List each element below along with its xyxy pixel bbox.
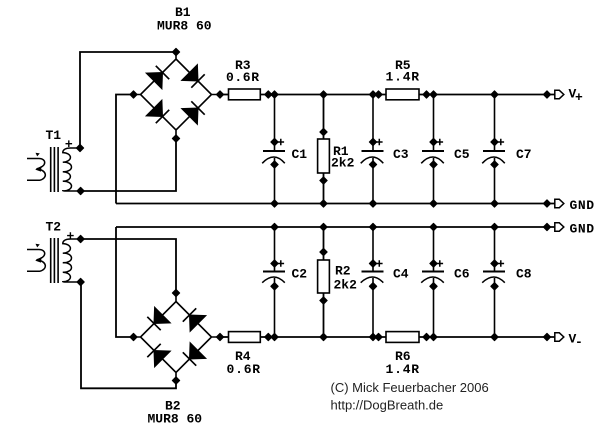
junction R4 out <box>265 333 272 340</box>
svg-text:GND: GND <box>570 198 595 213</box>
resistor R6 <box>386 332 420 377</box>
capacitor C3 <box>361 95 409 204</box>
capacitor C2 <box>262 227 307 337</box>
node B2 bottom <box>172 377 179 384</box>
junction C2 bottom <box>271 333 278 340</box>
node B2 top <box>172 289 179 296</box>
wire B1 bottom node to T1 secondary bottom <box>81 139 176 192</box>
T2 secondary winding <box>63 239 81 282</box>
capacitor C5 <box>421 95 470 204</box>
wire B1 left node to GND rail <box>116 95 134 204</box>
junction C7 bottom <box>491 200 498 207</box>
junction C6 top <box>430 223 437 230</box>
junction C3 top <box>369 91 376 98</box>
transformer T1 <box>27 128 84 195</box>
diode B2 bottom-left <box>147 344 170 367</box>
node B1 right <box>216 91 223 98</box>
node T1 secondary top <box>76 144 83 151</box>
node B1 bottom <box>172 135 179 142</box>
junction C5 bottom <box>430 200 437 207</box>
junction R5 out <box>423 91 430 98</box>
wire R5 to V+ terminal <box>419 94 555 96</box>
diode B2 right-top <box>183 308 206 331</box>
T1 primary arrow <box>35 166 41 172</box>
node B1 top <box>172 48 179 55</box>
bridge rectifier B2 diamond <box>134 293 221 381</box>
junction C8 top <box>491 223 498 230</box>
wire R6 to V- terminal <box>419 336 555 338</box>
wire B2 left node to GND rail (lower) <box>116 227 134 337</box>
junction C4 top <box>369 223 376 230</box>
junction C4 bottom <box>369 333 376 340</box>
svg-text:http://DogBreath.de: http://DogBreath.de <box>331 398 444 413</box>
wire B1 right to R3 <box>220 94 229 96</box>
junction R5 in <box>375 91 382 98</box>
diode B2 top-left <box>147 307 170 330</box>
terminal GND (lower) <box>555 223 564 231</box>
capacitor C4 <box>361 227 409 337</box>
junction C6 bottom <box>430 333 437 340</box>
wire B2 right to R4 <box>220 336 229 338</box>
junction C3 bottom <box>369 200 376 207</box>
junction R6 out <box>423 333 430 340</box>
junction R1 bottom <box>320 200 327 207</box>
svg-text:C6: C6 <box>454 267 470 282</box>
junction C8 bottom <box>491 333 498 340</box>
junction C2 top <box>271 223 278 230</box>
diode B1 left-top <box>146 66 169 89</box>
node B1 left <box>130 91 137 98</box>
T1 secondary winding <box>63 148 81 191</box>
capacitor C6 <box>421 227 470 337</box>
junction C1 bottom <box>271 200 278 207</box>
transformer T2 <box>27 220 84 286</box>
resistor R4 <box>227 332 261 377</box>
svg-text:2k2: 2k2 <box>334 278 358 293</box>
svg-text:GND: GND <box>570 222 595 237</box>
junction R3 out <box>265 91 272 98</box>
svg-text:T1: T1 <box>46 128 62 143</box>
junction V- terminal <box>543 333 550 340</box>
T2 core <box>51 238 58 283</box>
junction C5 top <box>430 91 437 98</box>
junction R1 top <box>320 91 327 98</box>
diode B1 bottom-right <box>182 101 205 124</box>
resistor R5 <box>386 58 420 100</box>
T1 core <box>51 147 58 192</box>
junction C1 top <box>271 91 278 98</box>
svg-text:0.6R: 0.6R <box>226 70 260 85</box>
wire B2 top node to T2 secondary top <box>81 239 176 293</box>
svg-text:2k2: 2k2 <box>331 156 355 171</box>
wire GND rail (lower) <box>116 226 555 228</box>
wire B2 bottom node to T2 secondary bottom <box>81 282 176 388</box>
svg-text:1.4R: 1.4R <box>386 362 420 377</box>
junction R6 in <box>375 333 382 340</box>
svg-text:R2: R2 <box>335 264 351 279</box>
resistor R3 <box>226 58 260 100</box>
diode B2 right-bottom <box>183 343 206 366</box>
svg-text:+: + <box>575 90 583 105</box>
junction GND2 terminal <box>543 223 550 230</box>
junction R2 top <box>320 223 327 230</box>
junction V+ terminal <box>543 91 550 98</box>
wire R4 to R6 (V- rail) <box>260 336 386 338</box>
T1 polarity plus <box>66 140 73 147</box>
resistor R2 2k2 <box>318 227 358 337</box>
node T2 secondary top <box>77 235 84 242</box>
svg-text:C8: C8 <box>516 267 532 282</box>
svg-text:T2: T2 <box>46 220 62 235</box>
node B2 left <box>130 333 137 340</box>
svg-text:C5: C5 <box>454 147 470 162</box>
resistor R1 2k2 <box>318 95 355 204</box>
T2 polarity plus <box>67 232 74 239</box>
capacitor C7 <box>482 95 531 204</box>
svg-text:C2: C2 <box>292 267 308 282</box>
wire R3 to R5 (V+ rail) <box>260 94 386 96</box>
T1 primary winding <box>27 159 45 181</box>
diode B1 left-bottom <box>146 100 169 123</box>
svg-text:1.4R: 1.4R <box>386 70 420 85</box>
terminal GND (upper) <box>555 199 564 207</box>
T2 primary arrow <box>35 257 41 263</box>
terminal V- <box>555 333 564 341</box>
svg-text:C4: C4 <box>393 267 409 282</box>
capacitor C8 <box>482 227 532 337</box>
node T2 secondary bottom <box>77 278 84 285</box>
svg-text:MUR8 60: MUR8 60 <box>157 19 212 34</box>
junction GND1 terminal <box>543 200 550 207</box>
junction C7 top <box>491 91 498 98</box>
node B2 right <box>216 333 223 340</box>
T2 primary winding <box>27 250 45 272</box>
capacitor C1 <box>262 95 307 204</box>
node T1 secondary bottom <box>77 187 84 194</box>
svg-text:0.6R: 0.6R <box>227 362 261 377</box>
terminal V+ <box>555 90 564 98</box>
svg-text:C7: C7 <box>516 147 532 162</box>
svg-text:C1: C1 <box>292 147 308 162</box>
wire B1 top node to T1 secondary top <box>80 52 176 148</box>
svg-text:(C) Mick Feuerbacher 2006: (C) Mick Feuerbacher 2006 <box>331 380 489 395</box>
bridge rectifier B1 diamond <box>134 52 221 139</box>
wire GND rail (upper) <box>116 203 555 205</box>
diode B1 top-right <box>182 65 205 88</box>
svg-text:MUR8 60: MUR8 60 <box>148 412 203 427</box>
svg-text:-: - <box>575 335 583 350</box>
junction R2 bottom <box>320 333 327 340</box>
svg-text:C3: C3 <box>393 147 409 162</box>
